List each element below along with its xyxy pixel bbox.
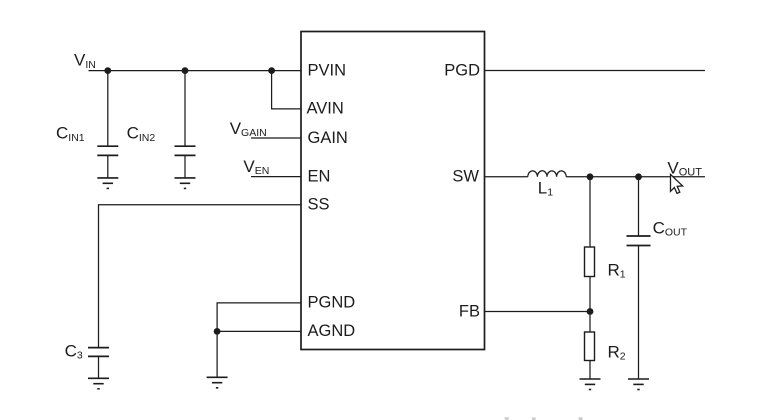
svg-text:AGND: AGND: [308, 322, 356, 340]
svg-text:PGD: PGD: [444, 61, 480, 79]
capacitor C3: [88, 348, 109, 357]
svg-text:R1: R1: [608, 260, 626, 280]
svg-text:GAIN: GAIN: [308, 129, 348, 147]
inductor L1: [528, 171, 566, 177]
wire: [589, 177, 591, 247]
svg-text:EN: EN: [308, 167, 331, 185]
svg-text:VEN: VEN: [243, 157, 269, 177]
svg-text:VGAIN: VGAIN: [230, 119, 267, 139]
wire: [217, 303, 301, 332]
svg-text:R2: R2: [608, 343, 626, 363]
resistor R2: [585, 332, 595, 361]
svg-text:AVIN: AVIN: [307, 100, 344, 118]
capacitor COUT: [627, 236, 651, 246]
node junction at COUT: [635, 173, 642, 180]
wire: [216, 331, 218, 377]
wire: [589, 361, 591, 380]
wire: [638, 246, 640, 380]
ground: [580, 379, 601, 390]
node junction SW/L1/R1: [587, 173, 594, 180]
wire: [184, 155, 186, 178]
ground: [628, 379, 649, 390]
capacitor CIN2: [175, 146, 196, 155]
capacitor CIN1: [97, 146, 118, 155]
ground: [88, 378, 109, 389]
node junction PGND/AGND: [214, 328, 221, 335]
node junction at AVIN branch: [268, 67, 275, 74]
node junction on VIN rail at CIN2: [182, 67, 189, 74]
svg-text:SW: SW: [452, 168, 479, 186]
ground: [175, 178, 196, 189]
wire: [217, 330, 301, 332]
svg-text:FB: FB: [459, 302, 480, 320]
ground: [97, 178, 118, 189]
wire: [485, 311, 591, 313]
wire: [272, 71, 301, 109]
resistor R1: [585, 247, 595, 277]
mouse cursor: [671, 174, 683, 193]
svg-text:PVIN: PVIN: [308, 61, 347, 79]
node junction on VIN rail at CIN1: [104, 67, 111, 74]
svg-text:C3: C3: [65, 342, 83, 362]
node junction FB/R1/R2: [587, 308, 594, 315]
wire: [184, 71, 186, 147]
wire: [107, 71, 109, 147]
wire: [566, 176, 705, 178]
wire: [99, 205, 302, 348]
svg-text:VIN: VIN: [74, 51, 96, 71]
wire: [485, 70, 706, 72]
op-amp U1: [301, 32, 485, 350]
svg-text:SS: SS: [308, 196, 330, 214]
svg-text:VOUT: VOUT: [667, 159, 702, 179]
svg-text:CIN1: CIN1: [56, 124, 85, 144]
wire: [589, 277, 591, 333]
svg-text:L1: L1: [538, 178, 553, 198]
wire: [638, 177, 640, 236]
decorative faint caption tops (cut off at bottom): [505, 417, 583, 420]
wire: [251, 176, 301, 178]
wire: [251, 137, 301, 139]
wire: [89, 70, 302, 72]
wire: [485, 176, 528, 178]
wire: [98, 356, 100, 378]
svg-text:PGND: PGND: [308, 294, 356, 312]
wire: [107, 155, 109, 178]
svg-text:CIN2: CIN2: [127, 124, 156, 144]
svg-text:COUT: COUT: [653, 219, 688, 239]
ground: [207, 377, 228, 388]
